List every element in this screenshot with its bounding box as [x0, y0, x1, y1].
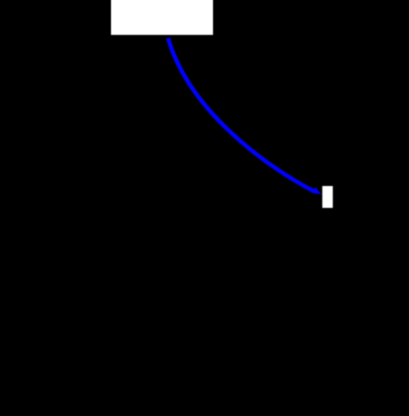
node box N1: [111, 0, 213, 35]
wire edge E1: [168, 38, 315, 192]
arrowhead of E1: [312, 187, 321, 194]
node box N2: [322, 186, 333, 208]
